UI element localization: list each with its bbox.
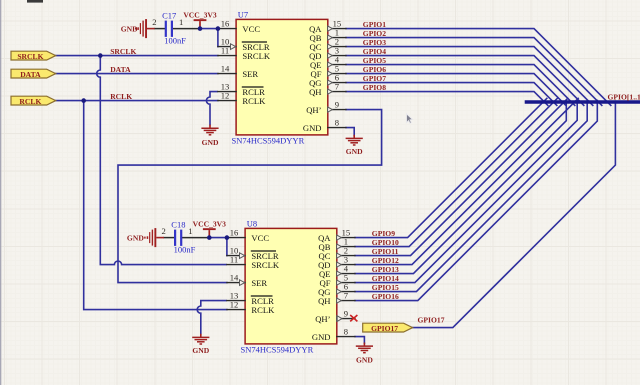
net label GPIO[1..17] xyxy=(608,92,640,101)
wire SRCLK port to U7 pin 11 xyxy=(56,55,218,57)
svg-text:SN74HCS594DYYR: SN74HCS594DYYR xyxy=(241,345,314,355)
junction RCLK xyxy=(81,98,86,103)
wire C17 pin 1 (black) xyxy=(173,28,200,30)
pin 1 (QB) of U7 xyxy=(310,28,346,43)
wire RCLK net vertical down to U8 pin 12 xyxy=(84,101,227,310)
net label GPIO10 xyxy=(372,238,399,247)
svg-text:GPIO16: GPIO16 xyxy=(372,292,399,301)
svg-text:U7: U7 xyxy=(238,10,248,20)
wire C18 to U8 VCC pin 16 xyxy=(209,237,227,239)
svg-text:GND: GND xyxy=(346,147,363,156)
sheet border top tick xyxy=(27,0,43,3)
pin 11 (SRCLK) of U7 xyxy=(218,46,271,61)
svg-text:VCC_3V3: VCC_3V3 xyxy=(193,219,227,228)
junction U8 VCC b xyxy=(225,235,230,240)
wire U8 VCC branch to pin 10 (SRCLR) xyxy=(226,238,228,256)
pin 13 (RCLR) of U8 xyxy=(227,291,274,306)
svg-text:9: 9 xyxy=(344,309,348,319)
pin 13 (RCLR) of U7 xyxy=(218,82,265,97)
svg-text:2: 2 xyxy=(162,226,166,236)
pin 11 (SRCLK) of U8 xyxy=(227,255,280,270)
IC U8 body xyxy=(245,228,337,344)
clock triangle U8 QH' xyxy=(337,316,342,322)
svg-text:C17: C17 xyxy=(162,10,176,20)
ground symbol under U7 GND pin xyxy=(346,135,364,156)
net label GPIO12 xyxy=(372,256,399,265)
svg-text:GPIO17: GPIO17 xyxy=(371,324,398,333)
junction SRCLK xyxy=(98,53,103,58)
wire GPIO17 to bus xyxy=(413,101,616,327)
pin 7 (QH) of U7 xyxy=(309,82,346,97)
pin 9 (QH’) of U8 xyxy=(315,309,355,324)
net label GPIO1 xyxy=(363,20,386,29)
svg-text:SER: SER xyxy=(242,69,258,79)
wire GPIO7 to bus xyxy=(346,83,557,106)
pin 16 (VCC) of U7 xyxy=(218,19,260,34)
net label GPIO6 xyxy=(363,65,386,74)
net label SRCLK xyxy=(110,47,136,56)
svg-text:RCLK: RCLK xyxy=(19,97,41,106)
pin 10 (SRCLR) of U8 xyxy=(227,246,279,261)
pin 2 (QC) of U8 xyxy=(319,246,355,261)
sheet border left edge xyxy=(0,0,2,385)
svg-text:GPIO[1..17]: GPIO[1..17] xyxy=(608,92,640,101)
power VCC_3V3 symbol (U7) xyxy=(183,10,217,28)
ground symbol under U7 RCLR xyxy=(201,125,219,147)
svg-text:GPIO2: GPIO2 xyxy=(363,29,386,38)
no-ERC marker on U8 pin 9 xyxy=(350,315,357,321)
svg-text:DATA: DATA xyxy=(20,70,41,79)
wire GPIO9 to bus xyxy=(355,98,547,237)
wire GPIO15 to bus xyxy=(355,100,587,291)
net label GPIO9 xyxy=(372,229,395,238)
wire GPIO8 to bus xyxy=(346,92,548,106)
wire GPIO4 to bus xyxy=(346,56,584,106)
svg-text:GPIO11: GPIO11 xyxy=(372,247,399,256)
ground symbol under U8 RCLR xyxy=(192,334,210,355)
wire GPIO1 to bus xyxy=(346,29,611,106)
svg-text:8: 8 xyxy=(344,327,348,337)
pin 7 (QH) of U8 xyxy=(318,291,355,306)
pin 15 (QA) of U7 xyxy=(309,19,346,34)
pin 6 (QG) of U7 xyxy=(309,73,346,88)
capacitor C17 100nF xyxy=(152,10,186,45)
port GPIO17 xyxy=(363,323,413,333)
svg-text:SRCLK: SRCLK xyxy=(242,51,270,61)
svg-text:SRCLK: SRCLK xyxy=(17,52,43,61)
power GND bar symbol left of C18 xyxy=(127,228,164,247)
svg-text:2: 2 xyxy=(152,17,156,27)
svg-text:RCLK: RCLK xyxy=(110,92,132,101)
wire DATA port to U7 pin 14 (SER) xyxy=(56,73,218,75)
svg-text:GPIO14: GPIO14 xyxy=(372,274,399,283)
net label GPIO5 xyxy=(363,56,386,65)
svg-text:12: 12 xyxy=(221,91,230,101)
svg-text:SN74HCS594DYYR: SN74HCS594DYYR xyxy=(232,136,305,146)
svg-text:12: 12 xyxy=(230,300,239,310)
wire GPIO6 to bus xyxy=(346,74,566,106)
svg-text:SRCLK: SRCLK xyxy=(251,260,279,270)
net label GPIO13 xyxy=(372,265,399,274)
svg-text:GPIO7: GPIO7 xyxy=(363,74,386,83)
svg-text:GPIO13: GPIO13 xyxy=(372,265,399,274)
wire U8 RCLR pin 13 to GND xyxy=(197,301,227,335)
svg-text:100nF: 100nF xyxy=(174,244,196,254)
mouse cursor xyxy=(407,114,413,124)
designator U7 xyxy=(238,10,248,20)
svg-text:100nF: 100nF xyxy=(164,35,186,45)
wire GPIO13 to bus xyxy=(355,100,566,273)
wire GND bar to C17 pin 2 xyxy=(155,28,165,30)
svg-text:16: 16 xyxy=(230,228,239,238)
pin 12 (RCLK) of U7 xyxy=(218,91,266,106)
pin 3 (QD) of U7 xyxy=(309,46,346,61)
pin 15 (QA) of U8 xyxy=(318,228,355,243)
pin 14 (SER) of U7 xyxy=(218,64,259,79)
wire C18 pin 1 (black) xyxy=(182,237,209,239)
net label GPIO11 xyxy=(372,247,399,256)
pin 1 (QB) of U8 xyxy=(319,237,355,252)
pin 4 (QE) of U7 xyxy=(310,55,346,70)
pin 8 (GND) of U7 xyxy=(303,118,346,133)
net label DATA xyxy=(110,65,131,74)
pin 3 (QD) of U8 xyxy=(318,255,355,270)
svg-text:14: 14 xyxy=(221,64,230,74)
svg-text:GPIO5: GPIO5 xyxy=(363,56,386,65)
svg-text:SRCLK: SRCLK xyxy=(110,47,136,56)
pin 8 (GND) of U8 xyxy=(312,327,355,342)
net label GPIO2 xyxy=(363,29,386,38)
pin 6 (QG) of U8 xyxy=(318,282,355,297)
junction U8 VCC a xyxy=(207,235,212,240)
bus GPIO[1..17] xyxy=(527,100,640,104)
port DATA xyxy=(11,69,56,79)
net label GPIO8 xyxy=(363,83,386,92)
wire U7 RCLR pin 13 to GND xyxy=(206,92,217,126)
port RCLK xyxy=(11,96,56,106)
svg-text:14: 14 xyxy=(230,273,239,283)
svg-text:SER: SER xyxy=(251,278,267,288)
pin 5 (QF) of U7 xyxy=(311,64,347,79)
wire SRCLK net: junction down, over DATA, to U8 pin 11 xyxy=(97,56,227,265)
wire GPIO2 to bus xyxy=(346,38,602,106)
svg-text:GPIO4: GPIO4 xyxy=(363,47,386,56)
net label GPIO7 xyxy=(363,74,386,83)
svg-text:QH’: QH’ xyxy=(306,105,321,115)
svg-text:C18: C18 xyxy=(171,219,185,229)
svg-text:QH: QH xyxy=(318,296,330,306)
pin 10 (SRCLR) of U7 xyxy=(218,37,270,52)
svg-text:GPIO8: GPIO8 xyxy=(363,83,386,92)
svg-text:GPIO15: GPIO15 xyxy=(372,283,399,292)
power GND bar symbol left of C17 xyxy=(121,19,155,38)
wire GPIO16 to bus xyxy=(355,100,597,300)
net label GPIO17 xyxy=(418,316,445,325)
net label GPIO16 xyxy=(372,292,399,301)
wire C17 to U7 VCC pin 16 xyxy=(200,28,218,30)
svg-text:16: 16 xyxy=(221,19,230,29)
comment U7 part number xyxy=(232,136,305,146)
net label GPIO15 xyxy=(372,283,399,292)
pin 4 (QE) of U8 xyxy=(319,264,355,279)
svg-text:VCC: VCC xyxy=(251,233,269,243)
pin 2 (QC) of U7 xyxy=(310,37,346,52)
wire GND bar to C18 pin 2 xyxy=(164,237,174,239)
pin 14 (SER) of U8 xyxy=(227,273,268,288)
wire GPIO5 to bus xyxy=(346,65,575,106)
svg-text:GPIO12: GPIO12 xyxy=(372,256,399,265)
pin 9 (QH’) of U7 xyxy=(306,100,346,115)
svg-text:7: 7 xyxy=(344,291,349,301)
svg-text:9: 9 xyxy=(335,100,339,110)
comment U8 part number xyxy=(241,345,314,355)
net label RCLK xyxy=(110,92,132,101)
svg-text:GND: GND xyxy=(356,355,373,364)
designator U8 xyxy=(247,219,257,229)
pin 12 (RCLK) of U8 xyxy=(227,300,275,315)
svg-text:RCLK: RCLK xyxy=(251,305,275,315)
wire GPIO14 to bus xyxy=(355,100,577,282)
net label GPIO3 xyxy=(363,38,386,47)
svg-text:GPIO1: GPIO1 xyxy=(363,20,386,29)
junction U7 VCC b xyxy=(216,26,221,31)
svg-text:GND: GND xyxy=(303,123,322,133)
wire cascade U7 QH' to U8 SER xyxy=(118,110,382,283)
svg-text:11: 11 xyxy=(221,46,229,56)
svg-text:DATA: DATA xyxy=(110,65,131,74)
svg-text:8: 8 xyxy=(335,118,339,128)
svg-text:7: 7 xyxy=(335,82,340,92)
svg-text:GPIO9: GPIO9 xyxy=(372,229,395,238)
svg-text:GND: GND xyxy=(202,138,219,147)
capacitor C18 100nF xyxy=(162,219,196,254)
svg-text:RCLK: RCLK xyxy=(242,96,266,106)
wire U7 VCC branch to pin 10 (SRCLR) xyxy=(217,29,219,47)
net label GPIO4 xyxy=(363,47,386,56)
svg-text:GND: GND xyxy=(192,346,209,355)
IC U7 body xyxy=(236,19,328,134)
ground symbol under U8 GND pin xyxy=(356,343,374,365)
svg-text:GND: GND xyxy=(127,233,144,242)
wire GPIO10 to bus xyxy=(355,98,557,246)
wire GPIO11 to bus xyxy=(355,98,568,255)
svg-text:VCC: VCC xyxy=(242,24,260,34)
pin 16 (VCC) of U8 xyxy=(227,228,269,243)
junction U7 VCC a xyxy=(198,26,203,31)
wire U7 GND pin 8 down xyxy=(346,128,354,136)
pin 5 (QF) of U8 xyxy=(320,273,356,288)
wire GPIO3 to bus xyxy=(346,47,593,106)
wire GPIO12 to bus xyxy=(355,98,578,264)
svg-text:VCC_3V3: VCC_3V3 xyxy=(183,10,217,19)
svg-text:QH’: QH’ xyxy=(315,314,330,324)
svg-text:GPIO17: GPIO17 xyxy=(418,316,445,325)
svg-text:11: 11 xyxy=(230,255,238,265)
svg-text:GND: GND xyxy=(312,332,331,342)
svg-text:GPIO6: GPIO6 xyxy=(363,65,386,74)
svg-text:U8: U8 xyxy=(247,219,257,229)
net label GPIO14 xyxy=(372,274,399,283)
wire RCLK port to U7 pin 12 xyxy=(56,100,218,102)
svg-text:GPIO3: GPIO3 xyxy=(363,38,386,47)
wire U8 GND pin 8 down xyxy=(355,337,364,344)
svg-text:GPIO10: GPIO10 xyxy=(372,238,399,247)
port SRCLK xyxy=(11,51,56,61)
svg-text:QH: QH xyxy=(309,87,321,97)
power VCC_3V3 symbol (U8) xyxy=(193,219,227,237)
